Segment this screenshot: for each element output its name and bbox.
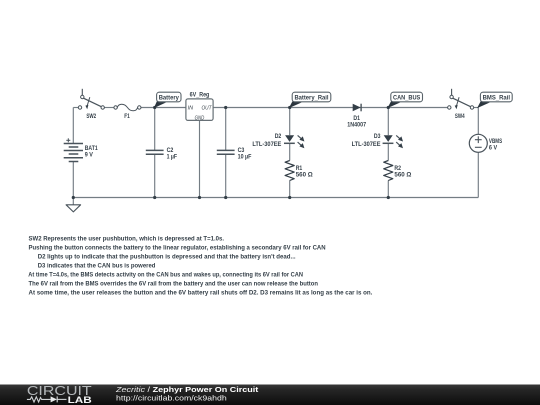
svg-text:http://circuitlab.com/ck9ahdh: http://circuitlab.com/ck9ahdh	[116, 393, 227, 402]
svg-text:LTL-307EE: LTL-307EE	[352, 141, 381, 148]
svg-text:10 µF: 10 µF	[238, 154, 252, 161]
svg-text:1 µF: 1 µF	[167, 154, 178, 161]
svg-text:Battery: Battery	[159, 95, 179, 102]
svg-text:6V_Reg: 6V_Reg	[190, 91, 210, 98]
svg-text:GND: GND	[195, 116, 205, 122]
svg-text:560 Ω: 560 Ω	[296, 171, 313, 178]
svg-text:LTL-307EE: LTL-307EE	[252, 141, 281, 148]
svg-text:9 V: 9 V	[85, 152, 94, 159]
svg-text:At some time, the user release: At some time, the user releases the butt…	[29, 289, 373, 296]
svg-text:IN: IN	[188, 105, 194, 111]
svg-text:D3 indicates that the CAN bus: D3 indicates that the CAN bus is powered	[38, 262, 156, 269]
svg-text:D2 lights up to indicate that: D2 lights up to indicate that the pushbu…	[38, 253, 296, 260]
svg-text:LAB: LAB	[68, 395, 93, 405]
svg-text:Battery_Rail: Battery_Rail	[294, 95, 328, 102]
svg-text:Pushing the button connects th: Pushing the button connects the battery …	[29, 244, 326, 251]
svg-text:The 6V rail from the BMS overr: The 6V rail from the BMS overrides the 6…	[29, 280, 319, 287]
svg-text:SW2: SW2	[86, 113, 96, 120]
svg-text:F1: F1	[124, 113, 130, 120]
svg-text:SW4: SW4	[455, 113, 465, 120]
svg-text:560 Ω: 560 Ω	[394, 171, 411, 178]
svg-text:CAN_BUS: CAN_BUS	[393, 95, 421, 102]
svg-text:D3: D3	[374, 133, 381, 140]
svg-text:6 V: 6 V	[489, 144, 498, 151]
svg-text:At time T=4.0s, the BMS detect: At time T=4.0s, the BMS detects activity…	[28, 271, 303, 278]
svg-text:OUT: OUT	[202, 105, 213, 111]
svg-text:SW2 Represents the user pushbu: SW2 Represents the user pushbutton, whic…	[29, 235, 225, 242]
svg-text:1N4007: 1N4007	[347, 122, 366, 129]
svg-text:D2: D2	[275, 133, 282, 140]
svg-text:BMS_Rail: BMS_Rail	[483, 95, 511, 102]
